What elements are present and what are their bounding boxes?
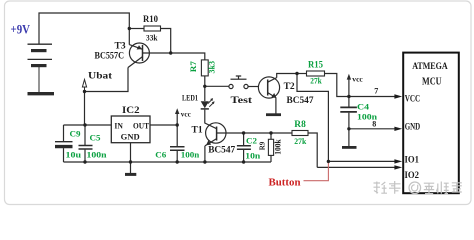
- ground below IC2: [125, 173, 136, 176]
- Ubat node arrow: [82, 80, 86, 92]
- svg-text:C2: C2: [246, 136, 257, 146]
- capacitor C2 plates: [237, 146, 251, 150]
- wire R10 right lead down to base node: [161, 29, 171, 54]
- transistor T1 BC547 body: [205, 123, 226, 146]
- svg-text:10n: 10n: [245, 150, 260, 160]
- wire Test button to T2 base: [248, 86, 258, 88]
- wire T2 emitter lead: [275, 98, 277, 114]
- pushbutton Test: [229, 76, 248, 89]
- wire VCC pin line: [349, 96, 396, 98]
- svg-text:R15: R15: [308, 60, 323, 70]
- vcc arrow at MCU supply: [347, 74, 351, 80]
- svg-text:C9: C9: [70, 129, 81, 139]
- svg-text:Test: Test: [231, 96, 254, 106]
- svg-text:Button: Button: [269, 176, 301, 188]
- wire T3 collector down and left to Ubat node: [85, 68, 129, 126]
- svg-text:OUT: OUT: [133, 120, 149, 130]
- wire R10 left lead: [129, 28, 144, 30]
- T1 emitter arrow (NPN): [206, 140, 211, 145]
- T2 emitter arrow (NPN): [271, 93, 276, 98]
- svg-text:IO1: IO1: [405, 155, 420, 165]
- wire top rail from battery to T3 emitter: [39, 13, 129, 45]
- ground below T2: [266, 113, 281, 116]
- svg-text:100k: 100k: [274, 139, 283, 155]
- wire R9 top lead: [270, 133, 272, 139]
- MCU box ATMEGA: [403, 53, 459, 194]
- svg-text:100n: 100n: [181, 150, 200, 160]
- wire R9 bottom lead: [270, 155, 272, 162]
- wire IC2 GND lead: [130, 143, 132, 174]
- wire R8 right lead down to IO2 line: [308, 133, 317, 167]
- wire C4 branch: [348, 97, 350, 107]
- svg-text:R7: R7: [188, 60, 198, 72]
- svg-text:GND: GND: [121, 131, 140, 141]
- wire C9 bottom lead: [63, 148, 65, 162]
- wire T1 emitter lead: [204, 146, 206, 162]
- wire C2 branch: [243, 133, 245, 145]
- wire LED anode lead: [204, 86, 206, 101]
- wire R7 bottom to LED node: [204, 76, 206, 86]
- svg-text:27k: 27k: [294, 136, 306, 146]
- svg-text:7: 7: [374, 86, 378, 95]
- wire vcc arrow stem at IC2 output: [176, 113, 178, 125]
- wire IC2 OUT to vcc node: [150, 124, 177, 126]
- pin arrow IO2: [394, 165, 402, 169]
- svg-text:Ubat: Ubat: [88, 71, 113, 81]
- LED1 emission arrows: [208, 99, 214, 107]
- svg-text:BC547: BC547: [208, 146, 235, 156]
- svg-text:MCU: MCU: [422, 76, 442, 87]
- svg-text:33k: 33k: [146, 34, 158, 43]
- wire GND pin line: [349, 128, 396, 130]
- pin arrow GND: [394, 127, 402, 131]
- svg-text:GND: GND: [405, 121, 421, 131]
- wire C6 branch: [176, 125, 178, 146]
- vcc arrow at IC2 output: [175, 108, 179, 114]
- svg-text:27k: 27k: [310, 75, 322, 85]
- svg-text:C6: C6: [155, 150, 166, 160]
- capacitor C4 plates: [340, 107, 357, 112]
- svg-text:R9: R9: [258, 142, 267, 151]
- svg-text:R8: R8: [294, 120, 306, 130]
- svg-text:BC547: BC547: [287, 96, 314, 106]
- svg-text:ATMEGA: ATMEGA: [412, 62, 448, 72]
- capacitor C5 plates: [79, 146, 93, 150]
- svg-text:C5: C5: [90, 132, 101, 142]
- red wire to Button label: [304, 161, 329, 180]
- resistor R8 box: [292, 131, 308, 136]
- resistor R10 box: [144, 26, 161, 31]
- svg-text:3k3: 3k3: [207, 61, 217, 74]
- wire C5 bottom lead: [84, 150, 86, 162]
- transistor T2 BC547 body: [258, 77, 279, 98]
- resistor R9 box: [268, 139, 273, 155]
- svg-text:vcc: vcc: [181, 111, 191, 119]
- LED1 diode: [201, 101, 209, 108]
- svg-text:IC2: IC2: [122, 106, 140, 116]
- wire C9 branch: [63, 125, 65, 141]
- resistor R7 box: [201, 60, 208, 76]
- wire C6 bottom lead: [176, 151, 178, 162]
- wire Ubat rail to IC2 IN: [64, 124, 112, 126]
- pin arrow IO1: [394, 159, 402, 163]
- wire ground rail: [64, 161, 272, 163]
- svg-text:T2: T2: [284, 82, 295, 92]
- regulator IC2 box: [111, 116, 150, 143]
- wire T1 base line to R8: [217, 132, 292, 134]
- svg-text:R10: R10: [143, 15, 158, 25]
- svg-text:BC557C: BC557C: [95, 50, 125, 60]
- svg-text:VCC: VCC: [405, 93, 421, 103]
- wire ground stem below C4: [348, 129, 350, 147]
- pin arrow VCC: [394, 94, 402, 98]
- svg-text:IN: IN: [114, 120, 123, 130]
- svg-text:vcc: vcc: [352, 76, 363, 84]
- wire C2 bottom lead: [243, 150, 245, 162]
- capacitor C9 electrolytic plates: [55, 141, 73, 143]
- svg-text:100n: 100n: [357, 111, 377, 121]
- wire LED cathode to T1 collector: [205, 110, 217, 129]
- wire C4 bottom lead: [348, 113, 350, 129]
- battery B1 +9V: [28, 44, 55, 93]
- wire C5 branch: [84, 125, 86, 145]
- wire R15 right lead jog to vcc node: [325, 74, 349, 97]
- svg-text:IO2: IO2: [405, 170, 420, 180]
- svg-text:LED1: LED1: [182, 92, 198, 102]
- wire IO1 line: [328, 160, 395, 162]
- wire node to Test button: [205, 85, 229, 87]
- ground below C4: [342, 146, 357, 149]
- svg-text:+9V: +9V: [11, 23, 31, 37]
- transistor T3 BC557C body: [128, 43, 149, 68]
- capacitor C6 plates: [170, 147, 185, 151]
- svg-text:10u: 10u: [66, 150, 82, 160]
- watermark zhihu: [374, 181, 462, 194]
- svg-text:C4: C4: [357, 101, 370, 111]
- wire vcc arrow stem at MCU: [348, 79, 350, 97]
- wire IO2 line: [317, 166, 395, 168]
- wire R15 left lead: [297, 73, 307, 75]
- wire T2 collector up to R15 node: [277, 74, 297, 78]
- T3 emitter arrow (PNP): [137, 45, 142, 49]
- svg-text:100n: 100n: [87, 150, 107, 160]
- wire T2 collector net down to IO1 node: [297, 74, 328, 162]
- wire T3 base to R7 top: [143, 53, 205, 60]
- resistor R15 box: [307, 71, 325, 76]
- svg-text:T1: T1: [192, 125, 203, 135]
